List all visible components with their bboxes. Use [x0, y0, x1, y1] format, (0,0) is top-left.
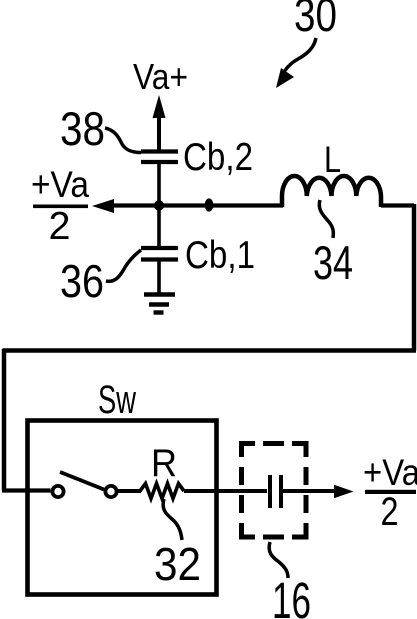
svg-text:30: 30: [294, 0, 337, 41]
capacitor inside block 16: [270, 475, 281, 508]
junction dot at capacitor column: [154, 200, 164, 210]
capacitor Cb,2: [141, 152, 178, 163]
inductor L coil: [282, 176, 381, 207]
arrowhead up to Va+: [153, 95, 166, 118]
wire: left vertical drop: [2, 349, 7, 491]
wire: inductor to right edge: [381, 203, 414, 207]
svg-text:+Va: +Va: [31, 164, 89, 205]
svg-text:+Va: +Va: [363, 452, 417, 493]
svg-text:Cb,1: Cb,1: [185, 234, 255, 277]
resistor R: [140, 484, 184, 499]
node +Va/2 right label: [363, 452, 417, 534]
svg-text:2: 2: [381, 490, 399, 534]
wire: right vertical drop: [412, 204, 417, 351]
svg-text:38: 38: [60, 102, 105, 155]
switch contact left: [52, 486, 63, 497]
node +Va/2 left label: [31, 164, 89, 248]
arrowhead left on rail: [92, 199, 114, 213]
leader squiggle from L coil to 34: [319, 200, 333, 238]
ground: [144, 295, 175, 313]
wire: long horizontal return: [3, 348, 417, 353]
wire: capacitor 16 to output arrow: [281, 489, 336, 493]
wire: resistor to capacitor 16: [184, 489, 267, 493]
switch contact right: [105, 486, 116, 497]
svg-text:Sw: Sw: [98, 378, 136, 422]
switch lever: [60, 472, 104, 490]
wire: Cb,1 to ground: [157, 261, 161, 294]
svg-text:Cb,2: Cb,2: [183, 136, 253, 179]
svg-text:R: R: [151, 442, 177, 485]
junction dot mid rail: [205, 198, 214, 211]
wire: feed into switch box: [2, 488, 51, 492]
switch box Sw: [28, 421, 217, 595]
svg-text:16: 16: [272, 572, 311, 619]
arrowhead right output: [334, 485, 354, 498]
leader arrow from 30: [282, 38, 316, 76]
leader squiggle from 38 to Cb,2: [105, 128, 141, 153]
leader squiggle from R to 32: [163, 499, 182, 540]
wire: right contact to resistor: [118, 489, 141, 493]
svg-text:36: 36: [60, 255, 104, 307]
leader squiggle from block to 16: [269, 542, 288, 578]
svg-text:32: 32: [154, 538, 201, 590]
svg-text:L: L: [324, 139, 341, 180]
svg-text:34: 34: [313, 236, 353, 289]
leader squiggle from 36 to Cb,1: [106, 250, 141, 281]
svg-text:Va+: Va+: [133, 56, 188, 97]
capacitor Cb,1: [141, 248, 178, 260]
dashed block 16: [242, 444, 307, 538]
svg-text:2: 2: [49, 205, 71, 248]
wire: horizontal rail: [110, 203, 283, 207]
wire: vertical lead to Va+ arrow: [157, 110, 161, 150]
wire: Cb,2 bottom to horizontal rail: [157, 164, 161, 246]
